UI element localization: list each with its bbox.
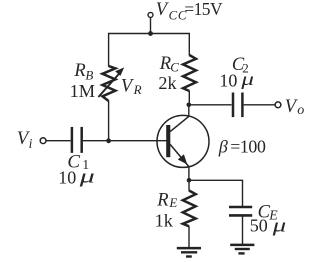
wire C2 to Vo terminal [244,104,275,106]
svg-text:R: R [73,61,85,81]
label CE [258,202,279,222]
capacitor C2 [233,93,242,118]
svg-text:1M: 1M [70,81,96,101]
label Vo [285,97,305,118]
label RB [73,61,93,82]
wire RC bottom to collector node [188,91,190,105]
wire Vcc stub [150,18,152,34]
resistor RB (potentiometer 1M) [102,66,115,101]
capacitor CE [229,207,252,215]
wire collector stub [188,105,190,117]
svg-text:=15V: =15V [184,0,223,19]
node junction at emitter [187,178,192,183]
wire RE to ground [188,226,190,247]
wire C1 to base [83,140,168,142]
svg-text:μ: μ [271,216,286,237]
label RE [156,190,177,210]
arrow VR through RB [98,67,124,97]
terminal VCC [148,12,153,17]
transistor Q1 emitter lead [170,144,189,167]
label C1 [67,152,89,173]
node junction at base [106,138,111,143]
label VR [121,77,142,98]
label 10u C1 [58,167,95,188]
ground below CE [230,245,254,254]
resistor RC [183,55,196,91]
terminal Vo [275,102,281,108]
svg-text:o: o [297,103,304,118]
svg-text:μ: μ [78,167,95,188]
svg-text:R: R [133,82,142,97]
terminal Vi [40,138,46,144]
wire emitter node to CE [189,180,243,206]
wire Vi terminal to C1 [46,140,70,142]
ground below RE [177,248,201,256]
wire CE to ground [242,216,244,244]
svg-text:10: 10 [58,168,76,188]
wire RB bottom to base node [108,101,110,141]
label beta=100 [218,137,266,157]
label 50u CE [250,216,286,237]
label Vi [17,129,33,151]
wire emitter node to RE [188,180,190,190]
label C2 [232,55,249,76]
svg-text:i: i [29,136,33,151]
svg-text:β: β [218,137,229,157]
wire collector node to C2 [189,104,232,106]
svg-text:1k: 1k [155,210,174,230]
transistor Q1 circle [157,115,209,167]
capacitor C1 [72,127,82,153]
svg-text:μ: μ [240,69,254,89]
svg-text:2k: 2k [158,73,177,93]
svg-text:E: E [168,195,177,210]
svg-text:R: R [159,54,171,74]
node junction at collector [187,103,192,108]
label RC [159,54,180,75]
wire top rail [109,34,190,67]
label 10u C2 [219,69,254,91]
resistor RE [183,191,196,227]
svg-text:10: 10 [219,71,237,91]
label VCC=15V [156,0,223,23]
wire emitter stub [188,166,190,180]
transistor Q1 base bar [166,125,170,157]
svg-text:R: R [156,190,168,210]
transistor Q1 emitter arrow [178,154,188,164]
node junction at Vcc rail [148,31,153,36]
transistor Q1 collector lead [170,116,189,131]
svg-text:=100: =100 [230,137,266,157]
svg-text:50: 50 [250,216,268,236]
